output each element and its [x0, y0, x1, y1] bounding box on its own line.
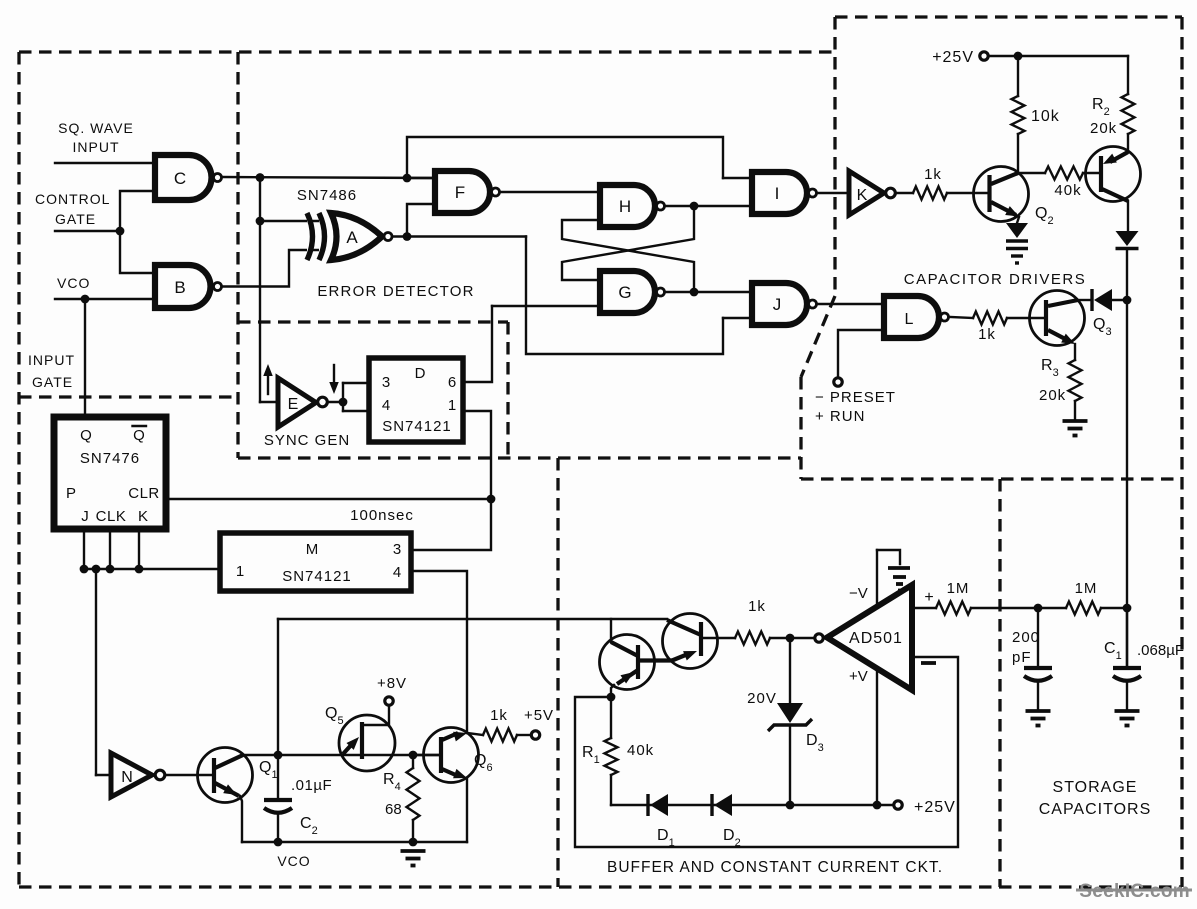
svg-text:K: K: [857, 187, 868, 204]
svg-text:D: D: [415, 365, 426, 382]
svg-text:L: L: [905, 311, 914, 328]
svg-text:4: 4: [393, 564, 401, 581]
svg-text:CAPACITORS: CAPACITORS: [1039, 801, 1152, 818]
svg-text:1M: 1M: [1075, 580, 1098, 597]
svg-text:10k: 10k: [1031, 108, 1060, 125]
svg-text:BUFFER AND CONSTANT CURRENT CK: BUFFER AND CONSTANT CURRENT CKT.: [607, 859, 943, 876]
svg-text:N: N: [121, 769, 133, 786]
svg-text:ERROR DETECTOR: ERROR DETECTOR: [317, 283, 474, 300]
svg-text:Q: Q: [133, 427, 145, 444]
svg-text:1: 1: [448, 397, 456, 414]
svg-text:G: G: [618, 283, 631, 302]
svg-text:VCO: VCO: [57, 275, 90, 291]
svg-text:GATE: GATE: [55, 211, 96, 227]
svg-text:B: B: [174, 278, 185, 297]
svg-text:SN74121: SN74121: [382, 418, 452, 435]
svg-text:J: J: [773, 295, 782, 314]
svg-text:INPUT: INPUT: [73, 139, 120, 155]
svg-text:CLK: CLK: [96, 508, 127, 525]
svg-text:VCO: VCO: [277, 853, 310, 869]
svg-text:+: +: [924, 589, 933, 606]
svg-text:P: P: [66, 485, 76, 502]
svg-text:20k: 20k: [1090, 120, 1117, 137]
svg-text:1k: 1k: [978, 326, 996, 343]
svg-text:J: J: [81, 508, 89, 525]
svg-text:E: E: [288, 396, 299, 413]
svg-text:M: M: [306, 541, 319, 558]
svg-text:4: 4: [382, 397, 390, 414]
svg-text:1k: 1k: [490, 707, 508, 724]
svg-text:GATE: GATE: [32, 374, 73, 390]
svg-text:100nsec: 100nsec: [350, 507, 414, 524]
svg-text:SQ. WAVE: SQ. WAVE: [58, 120, 134, 136]
svg-text:A: A: [346, 228, 358, 247]
svg-text:SN74121: SN74121: [282, 568, 352, 585]
svg-text:20V: 20V: [747, 690, 777, 707]
svg-text:+5V: +5V: [524, 707, 554, 724]
svg-text:1k: 1k: [748, 598, 766, 615]
svg-text:H: H: [619, 197, 631, 216]
svg-text:CLR: CLR: [128, 485, 160, 502]
svg-text:− PRESET: − PRESET: [815, 389, 896, 406]
svg-text:20k: 20k: [1039, 387, 1066, 404]
svg-text:SYNC GEN: SYNC GEN: [264, 432, 350, 449]
svg-text:pF: pF: [1012, 649, 1032, 666]
svg-text:3: 3: [393, 541, 401, 558]
svg-text:−V: −V: [849, 585, 868, 602]
svg-text:+8V: +8V: [377, 675, 407, 692]
svg-text:INPUT: INPUT: [28, 352, 75, 368]
svg-text:3: 3: [382, 374, 390, 391]
svg-text:SN7476: SN7476: [80, 450, 140, 467]
svg-text:SN7486: SN7486: [297, 187, 357, 204]
svg-text:AD501: AD501: [849, 630, 903, 647]
svg-text:40k: 40k: [1054, 182, 1081, 199]
svg-text:I: I: [775, 184, 780, 203]
svg-text:F: F: [455, 183, 465, 202]
svg-text:1M: 1M: [947, 580, 970, 597]
svg-text:CAPACITOR DRIVERS: CAPACITOR DRIVERS: [904, 271, 1086, 288]
svg-text:+ RUN: + RUN: [815, 408, 865, 425]
svg-text:200: 200: [1012, 629, 1040, 646]
svg-text:1: 1: [236, 563, 244, 580]
svg-text:STORAGE: STORAGE: [1053, 779, 1138, 796]
svg-text:SeekIC.com: SeekIC.com: [1079, 881, 1190, 902]
svg-text:C: C: [174, 169, 186, 188]
svg-text:68: 68: [385, 801, 402, 818]
svg-text:6: 6: [448, 374, 456, 391]
svg-text:.068µF: .068µF: [1137, 642, 1184, 659]
svg-text:+25V: +25V: [932, 49, 974, 66]
svg-text:+V: +V: [849, 668, 868, 685]
svg-text:+25V: +25V: [914, 799, 956, 816]
svg-text:CONTROL: CONTROL: [35, 191, 110, 207]
svg-text:.01µF: .01µF: [291, 777, 332, 794]
svg-text:40k: 40k: [627, 742, 654, 759]
svg-text:Q: Q: [80, 427, 92, 444]
svg-text:1k: 1k: [924, 166, 942, 183]
svg-text:K: K: [138, 508, 148, 525]
